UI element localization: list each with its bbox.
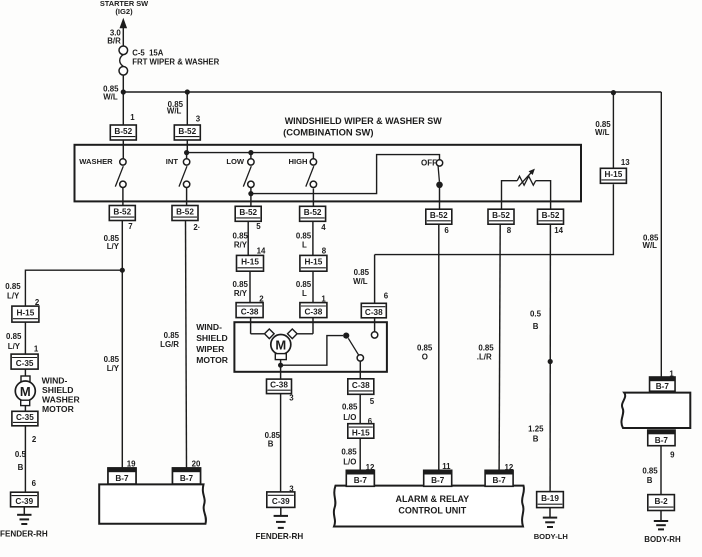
svg-text:C-38: C-38 [241,307,259,316]
svg-text:C-38: C-38 [365,308,383,317]
svg-text:ALARM & RELAY: ALARM & RELAY [395,494,469,504]
svg-text:0.5: 0.5 [530,310,542,319]
svg-text:L: L [302,241,307,250]
svg-text:B-7: B-7 [492,476,506,485]
svg-text:R/Y: R/Y [234,289,248,298]
svg-text:B: B [533,322,539,331]
svg-text:MOTOR: MOTOR [196,355,229,365]
svg-text:B-52: B-52 [542,211,560,220]
svg-text:B-7: B-7 [655,436,669,445]
svg-text:B-7: B-7 [115,474,129,483]
svg-text:CONTROL UNIT: CONTROL UNIT [398,506,466,516]
svg-text:11: 11 [442,462,451,471]
svg-text:B-52: B-52 [176,207,194,216]
svg-text:H-15: H-15 [305,258,323,267]
svg-text:M: M [20,384,31,399]
svg-text:O: O [422,353,428,362]
svg-text:B-7: B-7 [354,476,368,485]
svg-text:0.85: 0.85 [6,332,22,341]
svg-text:WIPER: WIPER [196,344,225,354]
svg-text:1: 1 [130,113,135,122]
svg-text:FENDER-RH: FENDER-RH [256,532,304,541]
svg-text:R/Y: R/Y [234,241,248,250]
svg-text:B-7: B-7 [431,476,445,485]
svg-text:FENDER-RH: FENDER-RH [0,530,48,539]
svg-text:L/Y: L/Y [8,342,21,351]
svg-text:C-38: C-38 [305,307,323,316]
svg-text:5: 5 [256,222,261,231]
svg-text:OFF: OFF [421,159,437,168]
svg-text:B-52: B-52 [239,208,257,217]
svg-text:2: 2 [32,435,37,444]
svg-text:8: 8 [507,226,512,235]
svg-text:B: B [647,476,653,485]
svg-text:B: B [533,435,539,444]
svg-text:WINDSHIELD WIPER & WASHER SW: WINDSHIELD WIPER & WASHER SW [285,116,443,126]
svg-text:L: L [302,289,307,298]
svg-text:2·: 2· [193,223,200,232]
svg-text:C-35: C-35 [16,359,34,368]
svg-text:MOTOR: MOTOR [42,404,75,414]
svg-text:20: 20 [192,459,201,468]
svg-text:B-52: B-52 [492,211,510,220]
svg-text:B-52: B-52 [430,211,448,220]
svg-text:INT: INT [166,157,179,166]
svg-text:3: 3 [196,115,201,124]
svg-text:B-52: B-52 [113,207,131,216]
svg-text:C-5 15A: C-5 15A [132,49,164,58]
svg-text:14: 14 [257,247,266,256]
svg-text:9: 9 [670,450,675,459]
svg-text:0.85: 0.85 [341,448,357,457]
svg-text:(COMBINATION SW): (COMBINATION SW) [283,127,373,138]
svg-text:L/O: L/O [343,458,356,467]
svg-text:B-19: B-19 [541,494,559,503]
svg-text:WASHER: WASHER [42,394,81,404]
svg-text:4: 4 [321,223,326,232]
svg-text:L/Y: L/Y [107,364,120,373]
svg-text:SHIELD: SHIELD [42,385,74,395]
svg-text:C-35: C-35 [16,413,34,422]
svg-text:M: M [275,337,286,352]
svg-text:WIND-: WIND- [196,322,222,332]
svg-text:0.5: 0.5 [15,450,27,459]
svg-text:0.85: 0.85 [233,280,249,289]
svg-text:0.85: 0.85 [164,331,180,340]
svg-text:WASHER: WASHER [79,157,113,166]
svg-text:1: 1 [34,344,39,353]
svg-text:B: B [18,463,24,472]
svg-text:H-15: H-15 [241,258,259,267]
svg-text:0.85: 0.85 [478,343,494,352]
svg-text:C-38: C-38 [352,381,370,390]
svg-text:0.85: 0.85 [296,280,312,289]
svg-text:SHIELD: SHIELD [196,333,228,343]
svg-text:B/R: B/R [107,37,121,46]
svg-text:0.85: 0.85 [642,466,658,475]
svg-text:6: 6 [32,479,37,488]
svg-text:B-52: B-52 [178,127,196,136]
svg-text:BODY-LH: BODY-LH [534,532,568,541]
svg-text:L/Y: L/Y [107,242,120,251]
svg-text:B-52: B-52 [114,127,132,136]
svg-text:3: 3 [289,394,294,403]
svg-text:HIGH: HIGH [289,157,308,166]
svg-text:H-15: H-15 [605,170,623,179]
svg-text:.L/R: .L/R [477,353,492,362]
svg-text:6: 6 [444,226,449,235]
svg-text:B-52: B-52 [304,208,322,217]
svg-text:B-7: B-7 [656,382,670,391]
svg-text:L/Y: L/Y [7,292,20,301]
svg-text:B-7: B-7 [180,474,194,483]
svg-text:L/O: L/O [343,413,356,422]
svg-text:0.85: 0.85 [296,232,312,241]
svg-text:W/L: W/L [103,93,118,102]
svg-text:W/L: W/L [167,106,182,115]
svg-text:LOW: LOW [226,157,245,166]
svg-text:0.85: 0.85 [104,355,120,364]
svg-text:14: 14 [554,226,563,235]
svg-text:0.85: 0.85 [5,282,21,291]
svg-text:W/L: W/L [353,277,368,286]
svg-text:H-15: H-15 [352,428,370,437]
svg-text:1.25: 1.25 [528,425,544,434]
svg-text:B: B [268,440,274,449]
svg-text:(IG2): (IG2) [115,7,133,16]
svg-text:8: 8 [322,247,327,256]
svg-text:W/L: W/L [595,128,610,137]
svg-text:5: 5 [370,397,375,406]
svg-text:B-2: B-2 [654,497,668,506]
svg-text:19: 19 [127,459,136,468]
svg-text:W/L: W/L [643,241,658,250]
svg-text:0.85: 0.85 [233,232,249,241]
svg-text:H-15: H-15 [17,308,35,317]
svg-text:13: 13 [621,158,630,167]
svg-text:0.85: 0.85 [417,343,433,352]
svg-text:FRT WIPER & WASHER: FRT WIPER & WASHER [132,58,219,67]
svg-text:C-38: C-38 [270,381,288,390]
svg-text:LG/R: LG/R [160,340,179,349]
svg-text:C-39: C-39 [15,497,33,506]
svg-text:6: 6 [384,292,389,301]
svg-text:BODY-RH: BODY-RH [644,535,681,544]
svg-text:0.85: 0.85 [354,268,370,277]
svg-text:0.85: 0.85 [342,403,358,412]
svg-text:C-39: C-39 [272,497,290,506]
svg-text:7: 7 [128,222,133,231]
